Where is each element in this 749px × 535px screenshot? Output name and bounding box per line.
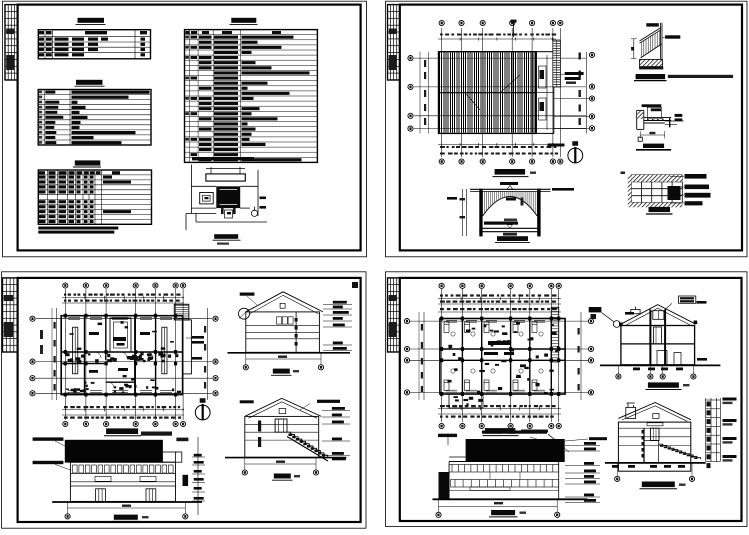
gutter detail: right tee element [669,118,671,127]
site plan title [214,234,238,239]
door window schedule header text [39,171,45,174]
roof plan: column grid vertical lines [442,28,561,157]
gutter detail: top annotation rows [642,104,662,107]
rear elevation: ground line [225,457,346,459]
section 2-2: top lintel [647,423,663,426]
north elevation: lower window band [451,480,559,488]
first floor plan: left dimension column [56,308,58,400]
second floor plan: left dimension column [423,312,425,400]
second floor plan: bottom left annex [449,394,483,408]
first floor plan: right dimension column [207,308,209,400]
rear elevation: left window [258,421,261,432]
side elevation: roof [246,292,323,314]
front elevation: left annotations [33,437,64,440]
entrance canopy detail: left post [479,189,482,237]
second floor plan: bottom dimension rows [438,408,561,410]
septic tank detail: left edge hatch [628,175,632,203]
second floor plan: structural columns at grid intersections [440,317,560,396]
second floor plan: top dimension rows [440,294,557,296]
entrance canopy detail: top dimension [500,182,518,185]
north elevation: ground line [433,498,588,500]
north elevation title [491,510,515,515]
roof plan: leader notes right of plan [565,72,584,75]
north arrow [568,148,583,163]
site plan drawing [206,167,245,181]
second floor plan: right dimension column [580,312,582,400]
first floor plan: top dimension rows [64,294,181,296]
second floor plan: central corridor annotations [484,352,498,355]
septic tank detail: hatched top row [631,175,682,182]
entrance canopy detail: bottom dimension text [503,233,517,236]
first floor plan: axis bubbles top [63,283,68,288]
sheet outer trim border [2,272,367,528]
section 1-1: ground line [600,364,720,366]
first floor plan: right leader annotations [192,336,204,339]
entrance canopy detail: inner annotations [506,198,516,201]
north elevation: roof band (solid) [466,439,565,462]
rear elevation: door [275,419,287,432]
side elevation: upper windows [277,317,294,324]
construction practice body text [185,36,189,39]
rear elevation: body [245,416,319,457]
first floor plan: right tall window [162,327,167,374]
roof plan: right dimension column [586,52,588,133]
roof plan: left dimension marks [424,60,426,125]
first floor plan title [106,428,138,434]
entrance canopy detail: dimension lines left [462,189,464,236]
roof plan: second bottom dimension row [440,153,558,155]
sheet inner frame border [18,5,361,251]
first floor plan: extra fixture marks [66,321,181,395]
side elevation: annotation top left [240,293,255,296]
septic tank detail: top left tick [621,172,626,175]
sheet inner frame border [18,278,361,522]
stair railing detail title and note [636,74,666,79]
title strip (binding edge) [388,5,400,80]
first floor plan: top wall window band [68,318,172,320]
first floor plan: stair top right [174,304,189,320]
rear elevation: axis bubbles [242,470,247,475]
first floor plan: mid band fixtures and doors [66,352,179,363]
first floor plan: axis bubbles bottom [63,421,68,426]
stair railing detail drawing [640,23,663,61]
section 1-1: footing marks [633,368,683,371]
title: door and window schedule (men chuang biao) [75,160,101,165]
drawing catalog rows text [39,38,44,41]
septic tank plan detail grid [631,175,682,203]
section 1-1: axis bubbles [616,374,621,379]
north elevation: top annotation leaders [482,431,502,434]
front elevation: upper window band [73,465,174,473]
section 2-2: chimney [626,407,636,418]
north elevation: right dimension column [584,442,596,445]
roof plan: top dimension row [440,34,556,36]
roof plan: hatched roof surface [439,52,537,134]
septic tank detail: bottom hatch band [628,203,683,208]
gutter detail title [643,144,664,148]
side elevation: ground line [228,352,351,354]
front elevation: right dark pier [183,475,189,486]
section 1-1: left annotations [589,307,602,312]
septic tank detail: annotation text rows [685,174,707,179]
entrance canopy detail: right post [537,189,540,237]
first floor plan: door arcs [95,352,153,388]
first floor plan: bottom dimension rows [62,409,184,411]
gutter detail: left bottom box [638,137,642,141]
roof plan: axis bubbles right [589,52,594,57]
second floor plan: stair right [551,307,558,362]
sheet outer trim border [386,272,748,527]
roof plan: bottom dimension row [440,146,556,148]
section 1-1: eave end dots [619,323,623,327]
second floor plan: bed symbols in rooms [444,322,537,391]
first floor plan: right side annex [183,320,192,374]
gutter detail: bottom dimension [640,134,665,136]
section 2-2: ground line [605,462,706,464]
roof plan: axis bubbles bottom [439,159,444,164]
table: drawing catalog [38,30,150,59]
rear elevation: gable window [279,409,286,414]
site plan: dimension marks right [260,197,267,200]
side elevation: detail circle callout [239,308,250,319]
section 1-1: left detail circle [613,321,620,328]
north elevation: left parapet annotation [438,434,457,437]
roof plan: small annotation blobs inside [540,70,545,79]
section 2-2: body [618,422,690,471]
front elevation title [114,515,138,520]
second floor plan: interior walls horizontal [440,349,565,360]
first floor plan: left tall window [73,327,78,374]
section 1-1: interior steps [657,351,681,365]
entrance canopy detail: arch with hatch [483,197,538,217]
project notes row labels and content text [39,91,42,94]
section 1-1: interior door frames [654,327,662,344]
site plan: roads and boundary [186,165,267,231]
front elevation: axis bubbles [65,514,70,519]
first floor plan: axis bubbles left [30,316,35,321]
title strip (binding edge) [5,5,18,80]
septic tank detail title [649,207,671,212]
rear elevation: external stair (descending right) [287,432,328,461]
septic tank detail: leader lines right [670,177,684,204]
panel 3 top-right header text [352,282,358,288]
roof plan title [495,169,525,175]
side elevation title [273,369,290,374]
section 2-2: axis bubbles [615,476,620,481]
roof plan: ridge line [439,92,537,94]
second floor plan: grid vertical lines [442,289,559,422]
section 2-2: internal stair descending right [659,444,701,459]
sheet inner frame border [400,278,742,521]
north elevation: top right leader [589,437,607,440]
title: drawing catalog (tu zhi mu lu) [78,18,105,23]
section 2-2: under-stair hatch marks [612,465,685,468]
second floor plan: grid horizontal lines [410,321,588,392]
site plan: west annex building [200,193,214,204]
entrance canopy detail: annotation right [552,188,574,191]
stair railing detail: right annotation [665,35,680,38]
section 2-2: door [650,428,659,440]
north elevation: axis bubbles [436,512,441,517]
second floor plan: interior walls vertical [462,319,551,395]
front elevation: right dimension column [197,437,199,515]
front elevation: middle band windows [95,476,156,481]
section 1-1: floor slab [621,343,695,345]
roof plan: stair ladder top right [553,40,561,87]
rear elevation with stair: roof [245,398,321,418]
first floor plan: interior walls [61,316,182,395]
second floor plan: room furniture and fixtures [447,322,559,394]
septic tank detail: dark inlet chamber [668,186,681,200]
side elevation: downpipe with brackets [295,312,297,352]
sheet outer trim border [386,1,748,257]
side elevation: annotation right rows [333,301,347,304]
sheet outer trim border [3,1,367,257]
gutter detail: post hatch [637,111,643,119]
rear elevation: annotation right rows [332,407,345,410]
section cut mark above roof [513,20,515,37]
north elevation: upper window band [449,465,559,473]
section 1-1: roof [621,305,696,326]
entrance canopy detail: bottom slab [479,227,540,229]
side elevation: axis bubbles [243,365,248,370]
front elevation: roof band (solid) [65,440,163,462]
first floor plan: grid horizontal lines [36,319,212,394]
entrance canopy detail: top beam [470,188,551,190]
second floor plan: window dashes top and bottom walls [446,320,545,392]
site plan: main building (filled) [216,186,240,208]
section 1-1: small roof accessory [631,310,640,314]
section 1-1: gable window [653,311,664,320]
construction practice header text [185,31,189,34]
north elevation: leader arrows on windows [490,472,520,479]
first floor plan: axis bubbles right [213,316,218,321]
section 2-2: gable window [653,414,659,419]
section 1-1 title [648,382,679,387]
section 1-1: body walls [621,326,695,365]
wall section detail: text rows right [723,398,737,401]
stair railing detail: dimension left [633,39,635,59]
north elevation: eave line [449,461,565,463]
sheet inner frame border [400,5,742,251]
first floor plan: room annotation blobs [89,332,99,335]
roof plan: axis bubbles left [408,56,413,61]
side elevation: gable window [280,303,285,308]
gutter detail drawing [637,110,671,129]
front elevation: body outline [70,462,175,501]
first floor plan: bottom wall window band [68,391,172,393]
wall section detail ladder right [706,398,721,462]
title strip (binding edge) [388,278,400,352]
second floor plan: axis bubbles top [439,283,444,288]
table: door and window schedule [38,170,151,224]
front elevation: floor lines [70,473,175,486]
first floor plan: lower room fixtures [66,375,174,392]
roof plan: column grid horizontal lines [414,58,586,129]
north elevation: body sides and base [449,462,559,500]
notes under door window schedule [38,227,118,230]
first floor plan: grid vertical lines [65,289,183,420]
section 2-2: left interior wall with marks [643,428,645,463]
front elevation: ground line [52,501,202,503]
roof plan: right wing rooms [536,52,554,134]
second floor plan: axis bubbles left [404,319,409,324]
leader lines from plan to elevation notes [530,437,556,445]
first floor plan: structural columns at grid intersections [64,314,178,397]
front elevation: doors ground floor [96,489,106,502]
side elevation: body [246,312,320,352]
north elevation: dark left stair tower [439,472,450,499]
title: construction practice (gong cheng zuo fa) [231,18,256,23]
drawing catalog header text [39,31,44,34]
first floor plan: left leader annotations [40,330,43,339]
stair railing detail: tread hatch band [640,59,663,66]
rear elevation: annotation top [240,400,254,403]
construction practice last row note [192,157,254,160]
gutter detail: right annotation [675,114,683,117]
section 1-1 right dimension text [697,358,707,361]
table: project notes [38,90,151,146]
second floor plan: outer walls [440,319,565,395]
first floor plan: central hall inner frame [110,318,131,352]
first floor plan: outer walls [61,316,182,395]
site plan: flag pole symbol [251,210,257,216]
second floor plan title [485,428,516,434]
title: project notes (gong cheng shuo ming) [76,80,103,85]
door window schedule body text [39,176,46,179]
section 2-2 title [642,482,675,488]
entrance canopy detail title [497,236,528,241]
second floor plan: axis bubbles right [588,319,593,324]
section 2-2: roof [618,403,690,422]
rear elevation title [274,474,291,479]
second floor plan: axis bubbles bottom [439,423,444,428]
stair railing detail: top annotation [646,23,659,26]
roof plan: slope arrows [500,75,520,93]
section 1-1: top annotation box [679,296,696,303]
section 2-2: small room lower left [644,441,659,463]
roof plan: axis bubbles top [439,20,444,25]
second floor plan: room door circles [451,332,543,373]
north arrow panel 3 [195,405,210,420]
table: construction practice [185,30,318,163]
front elevation: eave line right extension [65,461,176,463]
title strip (binding edge) [3,278,18,352]
site plan: gate steps [221,208,224,214]
